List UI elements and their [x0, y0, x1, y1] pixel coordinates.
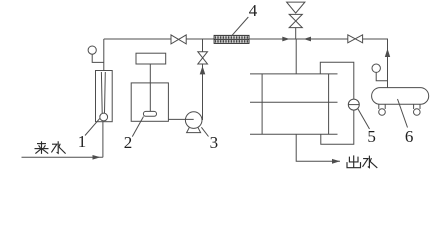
leader line to label 2 [132, 117, 143, 137]
wire top main line segment 4 [296, 38, 348, 40]
arrow flow up on pump riser [200, 66, 206, 74]
rotameter 1 tube right line [104, 72, 107, 113]
arrow flow left toward junction [304, 37, 311, 42]
filter right wall [328, 74, 330, 134]
arrow flow right toward junction [282, 37, 289, 42]
mixer shaft [149, 64, 151, 111]
gauge on vessel 6 [372, 64, 380, 72]
leader line to label 6 [398, 99, 408, 128]
valve V4 (horizontal bowtie right) [348, 35, 363, 43]
svg-text:1: 1 [78, 132, 87, 151]
wire bypass loop bottom [321, 110, 354, 144]
static mixer 4 (hatched box) [214, 35, 249, 43]
leader line to label 1 [85, 118, 100, 135]
svg-text:2: 2 [124, 133, 133, 152]
filter top tube sheet [250, 73, 338, 75]
wire branch down at pump riser junction [202, 39, 204, 52]
valve V3 (vent bowtie vertical) [289, 14, 302, 27]
filter left wall [261, 74, 263, 134]
filter bottom tube sheet [250, 133, 338, 135]
meter 5 [348, 99, 359, 110]
leader line to label 4 [232, 17, 248, 35]
wire rotameter outlet riser to top main line [103, 39, 105, 71]
wire gauge stem [92, 54, 104, 62]
pump 3 casing [185, 112, 202, 129]
svg-text:6: 6 [405, 127, 414, 146]
wire inlet horizontal (来水 line) [22, 156, 103, 158]
vessel 6 left leg [379, 104, 386, 115]
text 来水 (incoming water) drawn as strokes [35, 141, 66, 154]
wire bypass loop top [320, 62, 354, 99]
wire top main line segment 1 [104, 38, 171, 40]
arrow flow up from vessel [385, 49, 390, 58]
wire vessel gauge stem [376, 72, 387, 80]
mixer paddle [143, 111, 156, 116]
wire junction drop to filter [295, 39, 297, 74]
arrow inlet flow right [93, 155, 101, 160]
rotameter 1 body [96, 71, 113, 122]
svg-text:4: 4 [249, 1, 258, 20]
wire top main line segment 2 [186, 38, 214, 40]
gauge on rotameter outlet [88, 46, 96, 54]
wire inlet riser to rotameter [102, 122, 104, 158]
wire top main line segment 6 + drop to vessel [363, 39, 388, 88]
funnel vent [287, 2, 305, 13]
rotameter 1 tube left line [100, 72, 103, 113]
text 出水 (outgoing water) drawn as strokes [347, 155, 377, 168]
wire top main line segment 3 [249, 38, 296, 40]
valve V1 (horizontal bowtie) [171, 35, 186, 44]
pump 3 base [187, 128, 201, 133]
meter 5 diameter line [348, 104, 359, 106]
wire vent stem [295, 28, 297, 39]
vessel 6 right leg [414, 104, 421, 115]
filter middle tube sheet [250, 101, 338, 103]
pressure vessel 6 body [372, 88, 429, 105]
wire top main line segment 5 [311, 38, 348, 40]
tank 2 body [131, 83, 168, 121]
valve V2 (vertical bowtie above pump) [198, 52, 208, 64]
wire tank outlet to pump [168, 118, 193, 120]
wire pump discharge riser [202, 64, 204, 120]
leader line to label 3 [201, 127, 208, 136]
wire outlet drop (出水 line) [296, 134, 340, 161]
mixer motor on tank 2 [136, 53, 166, 64]
leader line to label 5 [358, 109, 370, 130]
svg-text:3: 3 [210, 133, 219, 152]
svg-text:5: 5 [367, 127, 376, 146]
arrow outlet flow right [332, 159, 340, 164]
rotameter 1 float [100, 113, 108, 121]
